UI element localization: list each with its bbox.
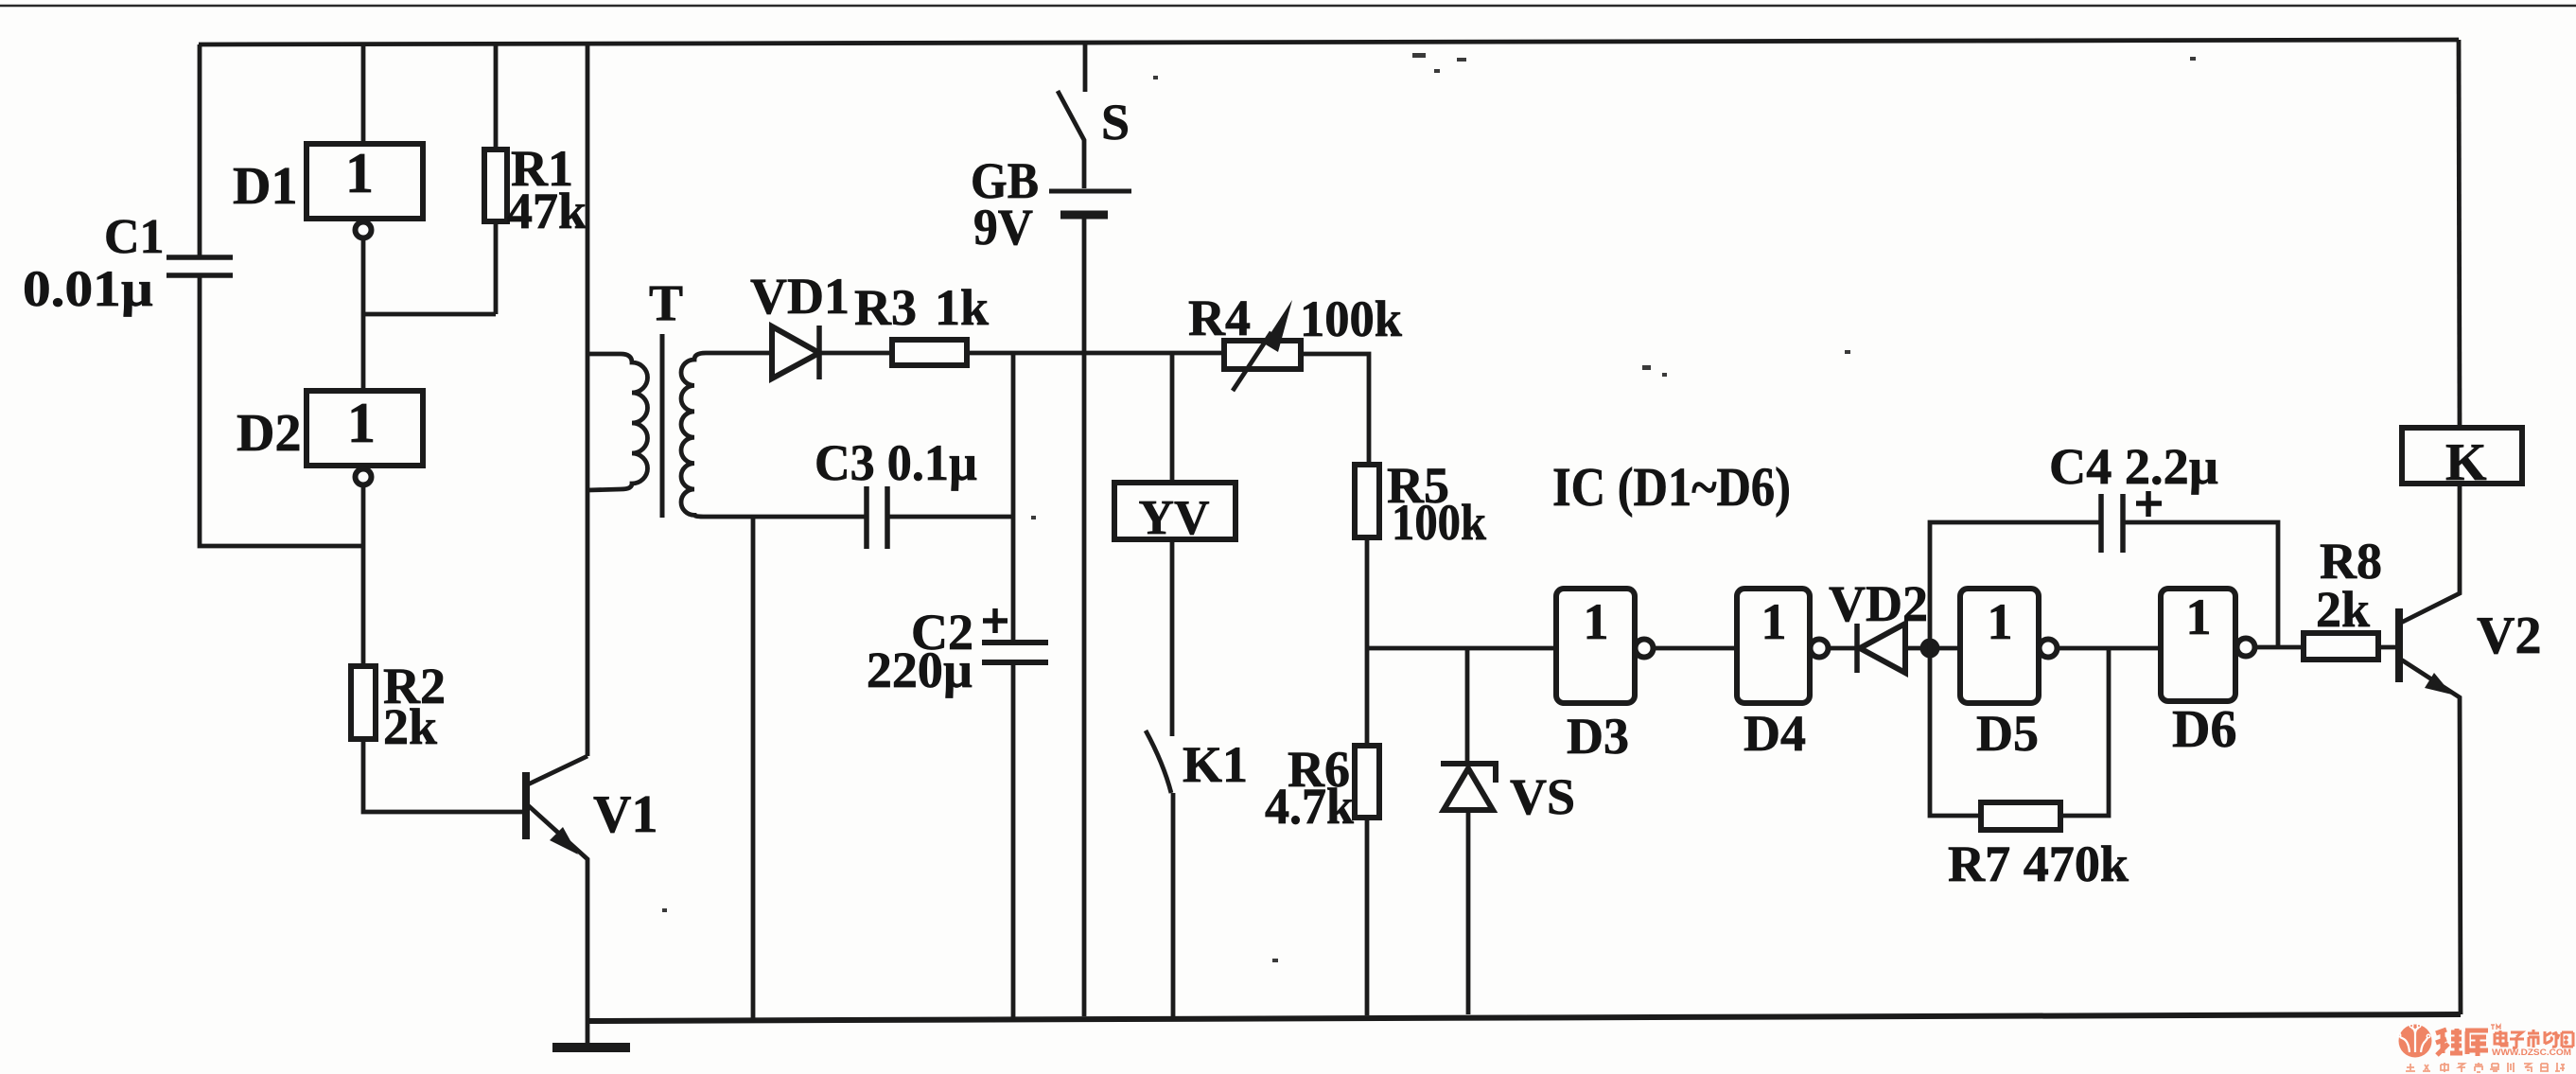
transformer core — [660, 334, 665, 518]
resistor R6 — [1355, 746, 1379, 818]
svg-text:2k: 2k — [2316, 581, 2370, 638]
gate D5 — [1960, 589, 2039, 703]
wire top supply rail — [199, 40, 2459, 44]
svg-text:2k: 2k — [383, 698, 437, 755]
watermark big CJK wei-ku (drawn) — [2436, 1029, 2488, 1056]
svg-text:47k: 47k — [507, 183, 587, 239]
svg-text:1: 1 — [1988, 593, 2013, 650]
C2 polarity plus — [983, 608, 1008, 633]
wire right drop from rail to relay K — [2459, 40, 2460, 428]
watermark logo circle — [2397, 1024, 2431, 1057]
svg-text:K: K — [2445, 433, 2487, 492]
switch K1 — [1146, 731, 1171, 793]
resistor R3 — [819, 351, 892, 356]
svg-text:1: 1 — [1584, 593, 1609, 650]
svg-text:C4 2.2µ: C4 2.2µ — [2049, 438, 2218, 495]
svg-text:100k: 100k — [1392, 494, 1486, 551]
wire R3 to R4 — [967, 351, 1224, 356]
svg-text:220µ: 220µ — [867, 642, 973, 698]
svg-text:S: S — [1101, 94, 1130, 150]
zener VS — [1465, 648, 1470, 763]
svg-text:R3: R3 — [854, 279, 917, 336]
wire node to D3 — [1367, 646, 1556, 651]
svg-text:VS: VS — [1510, 768, 1575, 825]
watermark CJK dian-zi-shi-chang-wang (drawn) — [2495, 1030, 2573, 1048]
wire center tap to ground bus — [751, 517, 756, 1020]
transformer T secondary — [681, 353, 867, 517]
svg-text:C3 0.1µ: C3 0.1µ — [815, 434, 977, 491]
svg-text:T: T — [649, 274, 683, 331]
svg-text:VD2: VD2 — [1829, 575, 1928, 632]
C4 polarity plus — [2136, 491, 2162, 517]
switch S — [1083, 41, 1088, 92]
gate D4 — [1737, 589, 1810, 703]
wire K to V2 collector — [2401, 484, 2460, 623]
svg-text:V1: V1 — [593, 785, 657, 844]
svg-text:D5: D5 — [1976, 705, 2039, 762]
svg-text:9V: 9V — [973, 199, 1033, 255]
battery GB — [1049, 189, 1131, 194]
wire V1 collector up to rail — [586, 44, 590, 756]
svg-text:V2: V2 — [2477, 607, 2541, 665]
svg-text:100k: 100k — [1300, 291, 1402, 347]
svg-text:R4: R4 — [1188, 290, 1251, 346]
node junction dot — [1920, 639, 1940, 659]
svg-text:D6: D6 — [2172, 700, 2236, 759]
solenoid YV branch — [1170, 353, 1175, 483]
gate D3 — [1556, 589, 1635, 703]
capacitor C1 — [198, 44, 202, 255]
svg-text:K1: K1 — [1183, 736, 1248, 793]
svg-text:R7 470k: R7 470k — [1948, 836, 2129, 892]
svg-text:VD1: VD1 — [750, 268, 850, 325]
transistor V2 — [2395, 608, 2403, 682]
svg-text:D4: D4 — [1744, 705, 1806, 762]
svg-text:4.7k: 4.7k — [1265, 778, 1354, 835]
relay K box — [2402, 428, 2522, 484]
svg-text:WWW.DZSC.COM: WWW.DZSC.COM — [2492, 1048, 2571, 1058]
svg-text:C1: C1 — [104, 210, 165, 264]
resistor R5 — [1355, 465, 1379, 537]
gate D2 — [307, 391, 423, 466]
capacitor C2 — [1011, 353, 1016, 640]
resistor R1 — [494, 44, 499, 150]
svg-text:1: 1 — [1761, 593, 1787, 650]
svg-text:D3: D3 — [1567, 708, 1629, 765]
svg-text:YV: YV — [1138, 491, 1209, 545]
wire R4 to R5 — [1301, 354, 1369, 465]
ground — [586, 1021, 590, 1045]
capacitor C3 — [867, 486, 887, 549]
transistor V1 — [522, 772, 530, 839]
svg-text:1: 1 — [2186, 589, 2212, 645]
transformer T primary — [587, 354, 648, 490]
diode VD2 — [1854, 624, 1860, 673]
capacitor C4 loop — [1930, 522, 2101, 648]
scan border top edge — [0, 5, 2576, 8]
svg-text:D1: D1 — [233, 157, 297, 216]
scan noise specks — [662, 53, 2196, 962]
gate D6 — [2161, 589, 2235, 701]
wire bottom ground bus — [587, 1014, 2461, 1021]
watermark TM — [2491, 1025, 2500, 1030]
resistor R2 — [351, 666, 376, 739]
resistor R7 loop — [1930, 648, 1981, 816]
svg-text:1: 1 — [345, 142, 374, 204]
svg-text:IC (D1~D6): IC (D1~D6) — [1552, 456, 1791, 518]
svg-text:1k: 1k — [935, 279, 989, 336]
gate D1 — [361, 44, 366, 144]
svg-text:0.01µ: 0.01µ — [23, 260, 153, 317]
resistor R8 — [2304, 633, 2378, 660]
wire D1 out to R1 bottom — [363, 312, 496, 317]
svg-text:D2: D2 — [237, 404, 301, 463]
watermark bottom CJK line (drawn) — [2406, 1063, 2565, 1072]
potentiometer R4 — [1224, 341, 1301, 369]
svg-text:1: 1 — [347, 392, 376, 454]
diode VD1 — [772, 326, 819, 379]
